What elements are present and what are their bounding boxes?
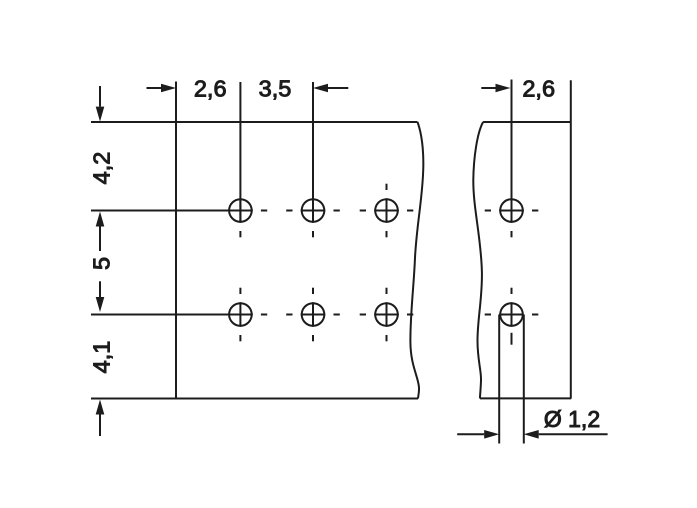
- svg-text:2,6: 2,6: [522, 76, 555, 102]
- svg-text:Ø 1,2: Ø 1,2: [544, 406, 600, 432]
- svg-text:5: 5: [89, 257, 115, 270]
- svg-text:3,5: 3,5: [259, 76, 292, 102]
- svg-text:2,6: 2,6: [194, 76, 227, 102]
- svg-text:4,2: 4,2: [89, 152, 115, 185]
- svg-text:4,1: 4,1: [89, 341, 115, 374]
